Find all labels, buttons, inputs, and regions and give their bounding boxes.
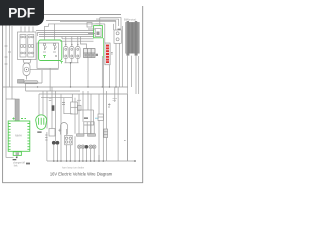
plus marks right [108,103,111,107]
left bus wire x6 [6,15,14,157]
left bus wire x9.5 [9,15,11,87]
vertical connector X2 [104,129,108,138]
green highlight box U1 [94,26,103,38]
svg-text:PDF: PDF [8,6,35,21]
marks left [45,135,47,140]
connector X1 with round pins [65,135,73,144]
wire top right L3 [60,21,116,23]
switch box S0 [18,80,25,84]
wire x46.9 down [46,132,48,161]
flange under contactor [23,60,31,64]
tick mark right [124,140,126,142]
wire under key housing [30,69,59,71]
fuse FC [76,47,81,59]
battery pack B1 (green) [8,118,30,156]
lamp dark [85,145,89,149]
fuse collector wire [65,59,79,88]
bottom bus junction dots [53,160,136,162]
bottom bus [47,160,135,162]
lamp L3 [78,145,82,149]
wire drops from lamps to bottom bus [54,138,107,162]
small box left [49,129,55,137]
green ground mark [60,62,63,64]
controller box C1 [71,102,78,114]
wires descending to lower section [46,91,48,129]
battery terminal marks top [13,118,27,120]
harness left bends [36,31,62,42]
wire top bus B stepped [45,24,105,26]
green wire from U1 down [103,38,105,58]
tab inner box [16,152,19,155]
fuse FB [70,47,75,59]
wires into plug [39,91,43,115]
wire pump to right [41,70,43,83]
lamp L5 [89,145,93,149]
PDF badge [0,0,44,26]
relay module small (left of green U1) [87,23,92,28]
U1 label [96,23,102,25]
lamp L4 [81,145,85,149]
wire y99 left [6,98,12,100]
charger plug CP1 (green) [36,115,47,130]
left tick labels [62,103,65,105]
wire top bus A [46,20,116,22]
battery feed band [15,99,19,121]
indicator dot D2 [56,141,60,145]
sheet top border [3,14,121,16]
switch S2 [53,43,55,45]
key switch green box [39,40,62,61]
indicator dot D1 [52,141,56,145]
wire U1 down gray [103,58,105,87]
fuse strip F1 (red) [105,43,110,65]
motor wire aux [131,56,133,87]
svg-text:NiMH: NiMH [15,134,22,138]
motor terminals [127,21,129,22]
junction dots fuse feeds [65,44,78,45]
contactor box K1/K2 enclosure [18,32,37,60]
small box right of cyan [98,114,104,121]
terminal block TB1 [84,49,96,58]
wire x75 down [74,136,76,161]
cylinder gauge G1 [61,123,68,135]
resistor bar R0 [24,81,38,84]
motor M1 [126,21,140,56]
mid bus y87 [3,86,128,88]
TB1 tab [96,54,98,56]
battery teeth left [8,124,10,150]
TB1 wire down [88,56,102,87]
wire drop to fuse strip F1 [104,24,106,43]
wire key switch feeds [45,24,55,40]
switch S1 [43,43,45,45]
label right of strip [111,53,113,55]
wire top right L1 [100,18,121,30]
mid bus y83 [19,82,42,84]
plug base [37,131,41,133]
svg-text:BM(motor): BM(motor) [124,18,136,22]
dark component on wire [52,105,55,111]
wires into U1 [88,29,95,34]
left bus wire x12 [12,26,15,99]
fuse FA [64,47,69,59]
relay K2 [28,35,34,58]
relay U1 inner [95,29,101,37]
wire bus corner down right [126,94,128,161]
mid bus y94 [39,93,127,95]
lamp L6 [92,145,96,149]
motor feet [126,53,129,55]
left ticks [5,46,11,64]
tick dashes [49,98,52,100]
dark bar mid [84,117,88,119]
C1 label [77,99,81,101]
green mark under S1 [43,56,46,59]
motor wire left [126,56,128,161]
battery bottom wire [16,155,18,158]
pump motor P1 [23,63,30,76]
wire key housing down [49,68,51,91]
connector bars above lamps [77,134,85,136]
motor wire right [136,56,139,94]
dark dash [13,159,17,160]
svg-text:16V Electric Vehicle Wire Diag: 16V Electric Vehicle Wire Diagram [50,171,113,176]
sheet border frame [3,6,143,183]
wire stubs above contactor [21,27,33,33]
wire x122 [121,26,123,87]
mid bus y97.7 [41,97,72,99]
wire pump down [26,76,28,80]
wire drops to fuses [66,37,87,49]
module box C2 [84,122,94,134]
wire drops to contactor K3 [114,21,116,31]
wire fuse strip down [109,65,111,87]
wires K3 down [116,43,119,87]
wire top right L2 [96,19,119,26]
mid bus y91 [26,90,80,92]
wire y110 [78,109,94,111]
label dashes right [113,99,118,101]
svg-text:horn lamp turn brake: horn lamp turn brake [62,167,85,170]
battery bottom tab [13,152,21,156]
harness bus lines center [40,30,94,32]
key switch housing [37,43,59,68]
contactor K3 [114,30,121,43]
wire drop to ignition module U1 [99,18,101,26]
relay K1 [20,35,26,58]
dark smudge right [26,163,30,165]
gray dots under S2 [55,55,57,57]
C1 side box [78,105,82,110]
cyan mark [95,117,99,119]
junction dots on y87 [37,86,117,87]
